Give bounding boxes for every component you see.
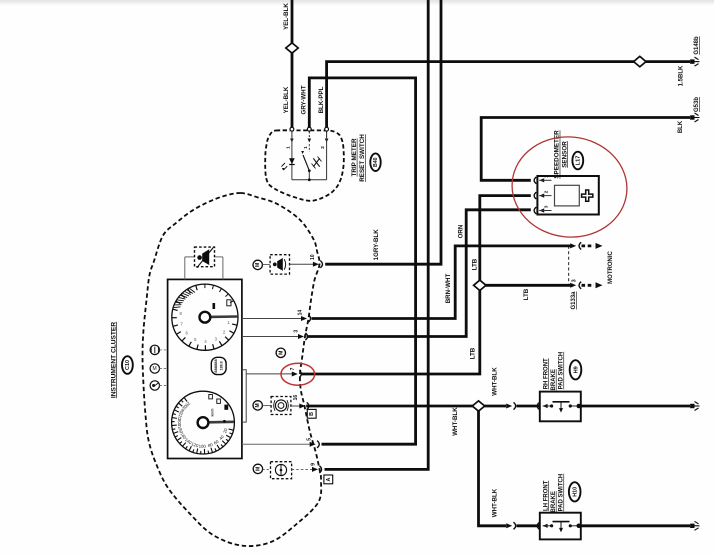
svg-text:GRY-WHT: GRY-WHT	[301, 85, 308, 114]
svg-text:C10: C10	[125, 360, 131, 370]
svg-text:2: 2	[544, 190, 549, 193]
svg-text:888888: 888888	[213, 358, 218, 372]
svg-text:1: 1	[544, 175, 549, 178]
svg-text:3: 3	[572, 279, 578, 282]
svg-text:2: 2	[320, 146, 325, 149]
svg-text:1GRY-BLK: 1GRY-BLK	[373, 229, 380, 261]
svg-text:WHT-BLK: WHT-BLK	[452, 407, 459, 436]
svg-text:BLK-PPL: BLK-PPL	[318, 86, 325, 113]
svg-text:SENSOR: SENSOR	[561, 141, 568, 168]
svg-text:PAD SWITCH: PAD SWITCH	[558, 474, 564, 512]
svg-text:3: 3	[294, 330, 300, 333]
svg-text:1: 1	[286, 146, 291, 149]
svg-text:L17: L17	[576, 156, 582, 166]
svg-text:YEL-BLK: YEL-BLK	[283, 86, 290, 113]
svg-text:G53b: G53b	[694, 97, 700, 112]
svg-text:188.8: 188.8	[220, 361, 224, 370]
svg-text:km/h: km/h	[210, 409, 214, 417]
svg-text:100: 100	[199, 444, 207, 449]
svg-text:BLK: BLK	[678, 120, 684, 133]
svg-text:1: 1	[303, 146, 308, 149]
svg-text:M: M	[255, 467, 261, 471]
svg-text:5: 5	[307, 438, 313, 441]
svg-text:INSTRUMENT CLUSTER: INSTRUMENT CLUSTER	[110, 322, 117, 398]
svg-text:B40: B40	[373, 157, 379, 167]
svg-text:WHT-BLK: WHT-BLK	[492, 367, 499, 396]
svg-text:LTB: LTB	[472, 258, 479, 270]
svg-text:B: B	[309, 412, 315, 416]
svg-text:3: 3	[544, 205, 549, 208]
svg-text:LTB: LTB	[523, 288, 530, 300]
svg-text:A: A	[326, 477, 332, 481]
svg-text:TRIP METER: TRIP METER	[351, 138, 358, 176]
svg-text:10: 10	[310, 254, 316, 260]
svg-text:BRAKE: BRAKE	[551, 369, 557, 390]
svg-text:14: 14	[298, 310, 304, 316]
svg-text:M: M	[153, 366, 157, 372]
svg-text:RESET SWITCH: RESET SWITCH	[359, 134, 366, 182]
svg-text:7: 7	[290, 367, 296, 370]
svg-text:9: 9	[311, 463, 317, 466]
svg-text:M: M	[278, 351, 284, 355]
svg-text:G133a: G133a	[571, 291, 577, 310]
svg-text:LTB: LTB	[469, 347, 476, 359]
svg-text:BRAKE: BRAKE	[551, 491, 557, 512]
svg-text:PAD SWITCH: PAD SWITCH	[558, 352, 564, 390]
svg-text:G148b: G148b	[694, 36, 700, 55]
svg-text:WHT-BLK: WHT-BLK	[492, 488, 499, 517]
svg-text:MOTRONIC: MOTRONIC	[608, 251, 614, 284]
svg-text:M: M	[255, 263, 261, 267]
svg-text:M: M	[255, 403, 261, 407]
svg-text:YEL-BLK: YEL-BLK	[283, 3, 290, 30]
svg-text:H9: H9	[573, 366, 579, 373]
svg-text:H10: H10	[572, 487, 578, 497]
svg-text:1.5BLK: 1.5BLK	[678, 65, 684, 86]
svg-text:RH FRONT: RH FRONT	[543, 358, 549, 389]
svg-text:LH FRONT: LH FRONT	[543, 480, 549, 511]
svg-text:ORN: ORN	[457, 224, 464, 238]
svg-text:200: 200	[177, 419, 182, 427]
svg-text:BRN-WHT: BRN-WHT	[445, 274, 452, 304]
svg-text:16: 16	[293, 395, 299, 401]
